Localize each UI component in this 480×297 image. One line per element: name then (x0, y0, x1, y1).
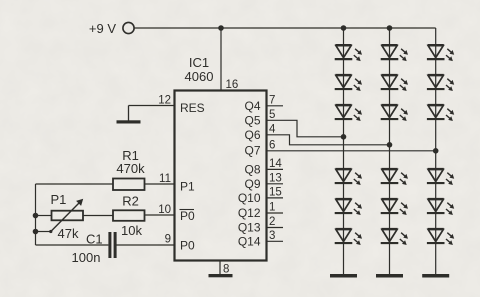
svg-text:13: 13 (269, 172, 282, 184)
svg-text:P0: P0 (180, 209, 195, 223)
wire R1 left (36, 183, 114, 185)
svg-text:14: 14 (269, 158, 282, 170)
svg-text:10k: 10k (121, 223, 142, 238)
ground at pin 12 (128, 106, 130, 121)
svg-text:Q6: Q6 (244, 128, 260, 142)
LED D16 (427, 169, 454, 185)
LED D18 (427, 229, 454, 245)
svg-text:6: 6 (269, 139, 275, 151)
junction wiper tap (33, 229, 39, 235)
pin 2 stub Q13 (267, 227, 284, 229)
node +9V supply terminal (123, 22, 134, 33)
P1 wiper arrow (49, 199, 83, 233)
svg-text:Q13: Q13 (238, 221, 261, 235)
junction P1 left (33, 213, 39, 219)
svg-text:4: 4 (269, 123, 276, 135)
pin 11 wire P1 (145, 183, 175, 185)
pin 1 stub Q12 (267, 212, 284, 214)
svg-text:1: 1 (269, 202, 275, 214)
pin 9 wire P0 (117, 244, 175, 246)
LED D15 (427, 105, 454, 121)
wire R2 left to P1 (83, 215, 113, 217)
wire P1 left (36, 215, 52, 217)
LED D4 (335, 169, 362, 185)
svg-text:Q4: Q4 (244, 99, 260, 113)
wire Q7 pin 6 to column3 (267, 150, 436, 152)
svg-text:3: 3 (269, 230, 275, 242)
svg-text:P0: P0 (180, 239, 195, 253)
junction pin16 branch (218, 25, 224, 31)
LED D8 (381, 75, 408, 91)
wire C1 left (36, 244, 109, 246)
ground column 1 (330, 274, 357, 278)
LED D17 (427, 199, 454, 215)
svg-text:11: 11 (159, 173, 171, 185)
junction column3 mid (433, 148, 439, 154)
svg-text:Q5: Q5 (244, 114, 260, 128)
junction column1 mid (341, 134, 347, 140)
svg-text:Q7: Q7 (244, 144, 260, 158)
svg-text:Q8: Q8 (244, 163, 260, 177)
svg-text:15: 15 (269, 186, 282, 198)
wire LED column 2 (389, 28, 391, 276)
wire left vertical rail (35, 184, 37, 245)
svg-text:2: 2 (269, 216, 275, 228)
LED D1 (335, 45, 362, 61)
LED D5 (335, 199, 362, 215)
wire LED column 3 (435, 28, 437, 276)
junction column2 mid (387, 142, 393, 148)
svg-text:+9 V: +9 V (89, 21, 116, 36)
pin 7 stub Q4 (267, 105, 284, 107)
svg-text:47k: 47k (58, 226, 79, 241)
resistor R2 (113, 210, 145, 221)
svg-text:Q9: Q9 (244, 177, 260, 191)
LED D12 (381, 229, 408, 245)
wire P1 wiper tap (36, 231, 51, 233)
svg-text:10: 10 (158, 204, 171, 216)
svg-text:RES: RES (180, 101, 205, 115)
LED D2 (335, 75, 362, 91)
pin 3 stub Q14 (267, 240, 284, 242)
svg-text:R2: R2 (122, 194, 139, 209)
wire top supply rail (134, 27, 436, 29)
ground at pin 8 (209, 274, 233, 277)
op IC1 4060 box U1 (175, 91, 267, 261)
svg-text:C1: C1 (86, 232, 103, 247)
resistor R1 (113, 179, 145, 191)
ground column 2 (376, 274, 403, 278)
svg-text:12: 12 (158, 95, 171, 107)
LED D6 (335, 229, 362, 245)
pin 10 wire P0bar (145, 214, 175, 216)
LED D9 (381, 105, 408, 121)
svg-text:100n: 100n (72, 250, 101, 265)
svg-text:8: 8 (223, 264, 229, 276)
junction column2 top (387, 25, 393, 31)
svg-text:P1: P1 (180, 180, 195, 194)
svg-text:Q12: Q12 (238, 206, 261, 220)
pin 13 stub Q9 (267, 183, 284, 185)
junction column1 top (341, 25, 347, 31)
potentiometer P1 (52, 211, 84, 221)
wire pin16 to IC (220, 28, 222, 91)
pin 14 stub Q8 (267, 168, 284, 170)
pin 8 wire (219, 261, 221, 275)
pin 15 stub Q10 (267, 197, 284, 199)
svg-text:IC1: IC1 (189, 55, 209, 70)
LED D10 (381, 169, 408, 185)
wire Q6 pin 4 to column2 (267, 135, 390, 145)
svg-text:470k: 470k (116, 161, 145, 176)
LED D13 (427, 45, 454, 61)
LED D7 (381, 45, 408, 61)
svg-text:P1: P1 (51, 192, 67, 207)
svg-text:5: 5 (269, 109, 275, 121)
pin 12 wire RES (129, 105, 175, 107)
svg-text:Q14: Q14 (238, 235, 261, 249)
wire Q5 pin 5 to column1 (267, 120, 344, 137)
ground column 3 (422, 274, 449, 278)
LED D11 (381, 199, 408, 215)
LED D3 (335, 105, 362, 121)
svg-text:Q10: Q10 (238, 191, 261, 205)
svg-text:4060: 4060 (185, 69, 214, 84)
svg-text:9: 9 (165, 234, 171, 246)
LED D14 (427, 75, 454, 91)
wire LED column 1 (343, 28, 345, 276)
svg-text:16: 16 (226, 79, 239, 91)
svg-text:7: 7 (269, 94, 275, 106)
capacitor C1 (108, 232, 116, 258)
